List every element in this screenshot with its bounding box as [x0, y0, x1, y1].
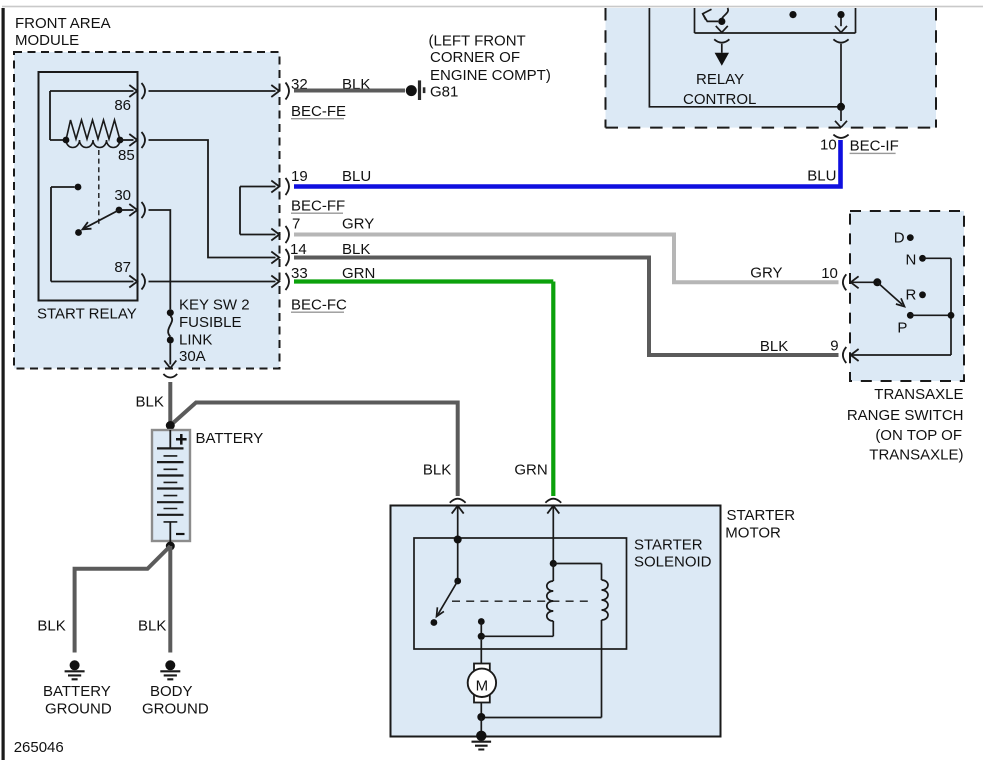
node control box dot right	[837, 11, 844, 18]
net BEC-FE	[291, 103, 346, 120]
label BLU at relay control	[807, 168, 836, 185]
svg-text:86: 86	[114, 97, 131, 114]
fuse F1 KEY SW 2 FUSIBLE LINK 30A	[164, 309, 176, 368]
label BATTERY GROUND	[43, 683, 112, 718]
node control box dot left	[789, 11, 796, 18]
svg-text:GRN: GRN	[514, 462, 547, 479]
svg-text:STARTER: STARTER	[634, 537, 703, 554]
svg-text:CORNER OF: CORNER OF	[430, 49, 520, 66]
svg-text:BLK: BLK	[423, 461, 451, 478]
node P position	[897, 312, 913, 337]
junction GRN at coils	[550, 560, 557, 567]
wire 85 to module pin 14	[149, 140, 280, 264]
switch driver glyph	[703, 8, 728, 25]
connector transaxle pin 9	[843, 347, 951, 363]
pin 86 label	[114, 97, 131, 114]
node relay fixed contact 87 side	[51, 184, 81, 282]
svg-text:BEC-IF: BEC-IF	[850, 138, 899, 155]
svg-text:7: 7	[292, 216, 300, 233]
svg-text:BLK: BLK	[760, 338, 788, 355]
label GRY near transaxle	[750, 264, 782, 281]
pin relay control output left	[714, 26, 729, 66]
node D position	[894, 230, 914, 247]
wire GRN pin 33 to starter solenoid	[294, 282, 553, 497]
wire BLK pin 32 to G81	[294, 89, 405, 93]
wire relay pin 87	[51, 276, 137, 288]
label BLK battery feed	[136, 394, 164, 411]
switch S1 TRANSAXLE RANGE SWITCH dashed box	[850, 211, 964, 381]
svg-text:STARTER: STARTER	[727, 507, 796, 524]
svg-text:BLK: BLK	[136, 394, 164, 411]
wire relay pin 85 stub	[120, 134, 137, 146]
svg-text:BEC-FF: BEC-FF	[291, 198, 345, 215]
junction battery negative	[166, 542, 175, 551]
module U1 FRONT AREA MODULE dashed box	[14, 52, 280, 369]
wire 87 to module pin 33	[149, 276, 280, 288]
switch solenoid contacts	[431, 543, 462, 626]
label BLK starter feed	[423, 461, 451, 478]
wire GRY pin 7 to transaxle pin 10	[294, 235, 839, 283]
pin 10 transaxle label	[821, 265, 838, 282]
svg-text:9: 9	[830, 338, 838, 355]
svg-text:FRONT AREA: FRONT AREA	[15, 15, 111, 32]
svg-text:ENGINE COMPT): ENGINE COMPT)	[430, 67, 551, 84]
wire relay pin 30 stub	[119, 204, 137, 216]
label diagram number 265046	[14, 739, 64, 756]
connector starter BLK socket	[450, 499, 466, 540]
pin 30 label	[114, 187, 131, 204]
wire BLU pin 19 to relay control pin 10	[294, 140, 841, 187]
wire BLK fusible link to battery positive	[168, 382, 172, 425]
mechanical link dashed solenoid	[452, 600, 594, 602]
ground starter motor case	[472, 731, 492, 750]
connector sockets at module right edge	[286, 83, 290, 291]
module U2 relay control dashed box	[606, 8, 937, 128]
switch relay armature	[75, 207, 122, 236]
pin 10 BEC-IF exit	[833, 107, 848, 138]
wire BLK battery negative to battery ground	[75, 546, 171, 653]
svg-text:BLU: BLU	[807, 168, 836, 185]
svg-text:MOTOR: MOTOR	[725, 525, 781, 542]
svg-text:10: 10	[821, 265, 838, 282]
node R position	[906, 286, 926, 303]
pin 14 label	[290, 241, 370, 258]
svg-text:LINK: LINK	[179, 331, 212, 348]
relay K1 START RELAY box	[39, 72, 138, 301]
pin 33 label	[291, 265, 375, 282]
svg-text:CONTROL: CONTROL	[683, 91, 756, 108]
wire hold-in winding to motor ground node	[481, 717, 601, 719]
connector transaxle pin 10	[843, 274, 874, 290]
svg-text:GRY: GRY	[342, 216, 374, 233]
battery negative terminal mark	[176, 533, 185, 535]
pin 7 label	[292, 216, 374, 233]
resistor relay coil suppressor	[66, 120, 120, 140]
svg-text:SOLENOID: SOLENOID	[634, 554, 712, 571]
label TRANSAXLE RANGE SWITCH ON TOP OF TRANSAXLE	[847, 386, 964, 464]
battery BT1	[152, 430, 190, 542]
pin 10 label	[820, 137, 837, 154]
net BEC-IF	[850, 138, 899, 155]
net BEC-FF	[291, 198, 345, 215]
pin 85 label	[118, 147, 135, 164]
svg-text:RELAY: RELAY	[696, 71, 744, 88]
junction solenoid BLK entry	[454, 536, 462, 544]
motor M armature	[468, 640, 496, 703]
label BATTERY	[196, 430, 264, 447]
wire BLK pin 14 to transaxle pin 9	[294, 258, 839, 356]
ground BATTERY GROUND	[65, 660, 85, 679]
svg-text:BLK: BLK	[342, 241, 370, 258]
svg-text:TRANSAXLE): TRANSAXLE)	[869, 447, 963, 464]
ground BODY GROUND	[160, 660, 180, 679]
svg-text:BLU: BLU	[342, 168, 371, 185]
svg-text:M: M	[476, 678, 489, 695]
svg-text:GROUND: GROUND	[45, 701, 112, 718]
net BEC-FC	[291, 297, 347, 314]
svg-text:19: 19	[291, 168, 308, 185]
label BLK near transaxle	[760, 338, 788, 355]
svg-text:BEC-FE: BEC-FE	[291, 103, 346, 120]
label BLK right	[138, 618, 166, 635]
wire relay control internal feedback	[649, 8, 841, 107]
pin 32 label	[291, 76, 370, 93]
svg-text:30: 30	[114, 187, 131, 204]
svg-text:R: R	[906, 286, 917, 303]
svg-text:P: P	[897, 320, 907, 337]
label GRN starter feed	[514, 462, 547, 479]
junction battery positive	[166, 421, 175, 430]
wire relay pin 86 internal	[50, 85, 137, 140]
svg-text:KEY SW 2: KEY SW 2	[179, 297, 250, 314]
label START RELAY	[37, 306, 137, 323]
battery positive terminal mark	[176, 434, 187, 445]
svg-text:TRANSAXLE: TRANSAXLE	[874, 386, 963, 403]
svg-text:GROUND: GROUND	[142, 701, 209, 718]
wire jumper pins 19 and 7	[240, 181, 279, 241]
svg-text:87: 87	[114, 259, 131, 276]
label STARTER MOTOR	[725, 507, 795, 542]
connector socket below module at fusible link	[163, 374, 177, 378]
label BLK left	[37, 618, 65, 635]
svg-text:14: 14	[290, 241, 307, 258]
pin relay control output right	[833, 18, 848, 103]
label FRONT AREA MODULE	[15, 15, 111, 49]
svg-text:265046: 265046	[14, 739, 64, 756]
wire N and P to pin 9	[910, 258, 954, 355]
svg-text:BEC-FC: BEC-FC	[291, 297, 347, 314]
svg-text:N: N	[906, 251, 917, 268]
pin 19 label	[291, 168, 371, 185]
svg-text:START RELAY: START RELAY	[37, 306, 137, 323]
page left border	[2, 8, 5, 760]
node N position	[906, 251, 926, 268]
ground G81	[406, 80, 426, 100]
svg-text:(ON TOP OF: (ON TOP OF	[875, 427, 962, 444]
inductor pull-in winding	[547, 564, 554, 637]
junction relay control output	[837, 103, 845, 111]
label LEFT FRONT CORNER OF ENGINE COMPT G81	[429, 33, 551, 101]
svg-text:RANGE SWITCH: RANGE SWITCH	[847, 407, 964, 424]
svg-text:BODY: BODY	[150, 683, 193, 700]
solenoid box STARTER SOLENOID	[414, 538, 627, 649]
motor M1 STARTER MOTOR box	[391, 506, 721, 737]
svg-text:BLK: BLK	[37, 618, 65, 635]
svg-text:BATTERY: BATTERY	[196, 430, 264, 447]
wire BLK battery positive to starter	[170, 403, 457, 497]
wire 30 to fusible link	[149, 210, 171, 309]
pin 87 label	[114, 259, 131, 276]
label STARTER SOLENOID	[634, 537, 712, 571]
svg-text:BATTERY: BATTERY	[43, 683, 111, 700]
svg-text:D: D	[894, 230, 905, 247]
svg-text:30A: 30A	[179, 348, 206, 365]
label BODY GROUND	[142, 683, 209, 718]
inner control box	[695, 8, 856, 33]
inductor relay coil winding	[63, 137, 124, 148]
wire BLK battery negative to body ground	[168, 546, 172, 653]
svg-text:G81: G81	[430, 84, 458, 101]
wire solenoid contact to coils	[481, 635, 553, 637]
svg-text:BLK: BLK	[138, 618, 166, 635]
svg-text:FUSIBLE: FUSIBLE	[179, 314, 242, 331]
svg-text:GRY: GRY	[750, 264, 782, 281]
inductor hold-in winding	[553, 564, 608, 718]
label RELAY CONTROL	[683, 71, 756, 108]
label KEY SW 2 FUSIBLE LINK 30A	[179, 297, 250, 366]
mechanical link dashed	[98, 150, 100, 226]
page top rule	[2, 6, 983, 8]
connector sockets at relay edge	[142, 83, 146, 290]
junction motor negative	[477, 703, 485, 733]
svg-text:85: 85	[118, 147, 135, 164]
svg-text:10: 10	[820, 137, 837, 154]
wire 86 to module pin 32	[149, 85, 280, 97]
pin 9 transaxle label	[830, 338, 838, 355]
switch transaxle arm	[873, 278, 904, 306]
svg-text:MODULE: MODULE	[15, 32, 79, 49]
svg-text:(LEFT FRONT: (LEFT FRONT	[429, 33, 526, 50]
node solenoid motor contact	[478, 618, 485, 640]
connector starter GRN socket	[545, 499, 561, 564]
